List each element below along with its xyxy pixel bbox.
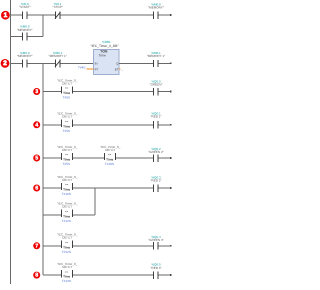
svg-text:T#5S: T#5S: [63, 162, 70, 166]
svg-text:T#4S: T#4S: [78, 66, 85, 70]
compare contact >= Time rung6 top: [57, 175, 78, 196]
network 2 rung wire: [11, 62, 94, 64]
svg-text:Time: Time: [63, 214, 70, 218]
svg-text:<=: <=: [65, 210, 69, 214]
svg-text:...: ...: [121, 68, 124, 72]
svg-text:T#10S: T#10S: [62, 192, 71, 196]
svg-text:"MEMORY": "MEMORY": [17, 54, 33, 58]
svg-text:<=: <=: [65, 86, 69, 90]
branch 7 rung wire: [43, 245, 61, 247]
svg-text:Time: Time: [63, 91, 70, 95]
coil GREEN %Q0.0: [150, 79, 172, 95]
coil RED 3 %Q0.5: [150, 263, 171, 279]
ET open output: [119, 68, 123, 72]
svg-text:DB".ET: DB".ET: [62, 178, 72, 182]
branch 3 rung wire: [43, 91, 61, 93]
svg-text:Time: Time: [63, 188, 70, 192]
svg-text:"MEMORY 1": "MEMORY 1": [147, 54, 165, 58]
svg-text:DB".ET: DB".ET: [62, 115, 72, 119]
svg-text:T#13S: T#13S: [62, 279, 71, 283]
branch 4 rung wire: [43, 124, 61, 126]
svg-text:>=: >=: [65, 120, 69, 124]
svg-text:8: 8: [35, 273, 38, 279]
compare contact >= Time rung7: [57, 233, 78, 254]
svg-text:DB".ET: DB".ET: [62, 148, 72, 152]
node 3 marker: [33, 88, 40, 95]
svg-text:IN: IN: [95, 62, 98, 66]
svg-text:>=: >=: [65, 241, 69, 245]
svg-text:T#5S: T#5S: [63, 129, 70, 133]
svg-text:6: 6: [35, 186, 38, 192]
compare contact <= Time rung6 lower: [57, 202, 78, 223]
contact MEMORY 1 %M0.1 (NC): [49, 51, 67, 68]
svg-text:"IEC_Timer_0_DB": "IEC_Timer_0_DB": [90, 44, 119, 48]
svg-text:"GREEN": "GREEN": [150, 83, 163, 87]
svg-text:Time: Time: [99, 54, 106, 58]
svg-text:"RED 2": "RED 2": [150, 179, 161, 183]
coil MEMORY %M0.0: [148, 2, 172, 19]
compare contact <= Time rung5 B: [100, 145, 121, 166]
node 4 marker: [33, 121, 40, 128]
branch power rail: [42, 63, 44, 275]
svg-text:T#5S: T#5S: [63, 96, 70, 100]
node 2 marker: [1, 59, 10, 68]
network 1 rung wire: [11, 14, 154, 16]
svg-text:DB".ET: DB".ET: [105, 148, 115, 152]
svg-text:T#12S: T#12S: [62, 219, 71, 223]
wire rung6 branch join vertical: [94, 188, 96, 215]
branch 8 rung wire: [43, 274, 61, 276]
node 1 marker: [1, 11, 10, 20]
svg-text:"RED 3": "RED 3": [150, 266, 161, 270]
svg-text:>=: >=: [65, 183, 69, 187]
svg-text:Time: Time: [106, 158, 113, 162]
svg-text:DB".ET: DB".ET: [62, 81, 72, 85]
svg-text:>=: >=: [65, 153, 69, 157]
svg-text:T#10S: T#10S: [105, 162, 114, 166]
wire rung1 parallel branch: [11, 35, 44, 37]
left power rail: [10, 0, 12, 284]
svg-text:>=: >=: [65, 270, 69, 274]
timer U1 TON IEC_Timer_0_DB: [90, 40, 119, 74]
svg-text:DB".ET: DB".ET: [62, 236, 72, 240]
svg-text:7: 7: [35, 243, 38, 249]
compare contact <= Time rung3: [57, 78, 78, 99]
svg-text:DB".ET: DB".ET: [62, 265, 72, 269]
wire rung1 branch vertical: [42, 15, 44, 36]
svg-text:Time: Time: [63, 245, 70, 249]
contact MEMORY %M0.0 (seal-in): [17, 25, 33, 41]
contact START %I0.0: [19, 2, 31, 19]
coil MEMORY 1 %M0.1: [147, 51, 172, 67]
svg-text:"MEMORY 1": "MEMORY 1": [49, 54, 67, 58]
coil GREEN 2 %Q0.2: [148, 147, 171, 162]
svg-text:3: 3: [35, 89, 38, 95]
svg-text:PT: PT: [95, 67, 99, 71]
branch 5 rung wire: [43, 157, 61, 159]
svg-text:DB".ET: DB".ET: [62, 205, 72, 209]
svg-text:Time: Time: [63, 158, 70, 162]
svg-text:5: 5: [35, 156, 38, 162]
node 8 marker: [33, 272, 40, 279]
svg-text:"MEMORY": "MEMORY": [148, 6, 164, 10]
svg-text:"STOP": "STOP": [52, 5, 62, 9]
svg-text:"START": "START": [19, 5, 31, 9]
svg-text:ET: ET: [115, 67, 119, 71]
coil GREEN 3 %Q0.4: [148, 235, 171, 250]
svg-text:Time: Time: [63, 275, 70, 279]
constant T#4S on PT: [78, 66, 94, 70]
contact STOP %I0.1 (NC): [52, 2, 62, 19]
compare contact >= Time rung8: [57, 262, 78, 283]
compare contact >= Time rung4: [57, 112, 78, 133]
compare contact >= Time rung5 A: [57, 145, 78, 166]
svg-text:Time: Time: [63, 124, 70, 128]
svg-text:"RED 1": "RED 1": [150, 115, 161, 119]
svg-text:"GREEN 2": "GREEN 2": [148, 150, 164, 154]
svg-text:T#12S: T#12S: [62, 250, 71, 254]
svg-text:1: 1: [4, 12, 8, 19]
svg-text:<=: <=: [108, 153, 112, 157]
wire rung6 parallel branch: [43, 214, 61, 216]
svg-text:4: 4: [35, 122, 38, 128]
node 7 marker: [33, 242, 40, 249]
branch 6 rung wire: [43, 187, 61, 189]
contact MEMORY %M0.0: [17, 51, 33, 68]
node 5 marker: [33, 155, 40, 162]
wire Q output: [119, 62, 153, 64]
node 6 marker: [33, 185, 40, 192]
svg-text:2: 2: [3, 60, 7, 67]
coil RED 1 %Q0.1: [150, 112, 171, 129]
svg-text:"GREEN 3": "GREEN 3": [148, 238, 164, 242]
svg-text:"MEMORY": "MEMORY": [17, 28, 33, 32]
coil RED 2 %Q0.3: [150, 176, 171, 192]
